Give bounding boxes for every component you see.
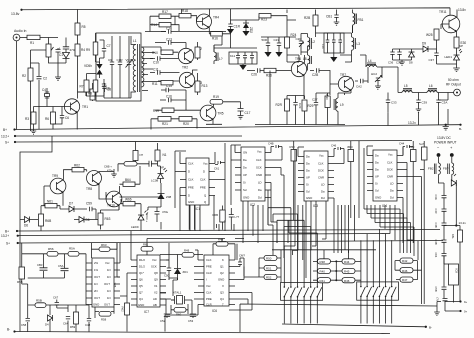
resistor R4 <box>75 44 80 56</box>
wire R33 riser <box>271 141 294 220</box>
wire left vertical rail <box>20 136 52 332</box>
capacitor C44 <box>403 145 413 156</box>
svg-text:TR11: TR11 <box>439 10 447 14</box>
resistor R62v <box>125 303 130 315</box>
wire TR6 emitter collector <box>303 55 306 99</box>
svg-text:R5A: R5A <box>69 247 75 251</box>
capacitor C3A <box>436 93 440 110</box>
svg-text:1N: 1N <box>107 275 111 279</box>
svg-text:CLK: CLK <box>387 161 393 165</box>
svg-text:UP: UP <box>375 175 379 179</box>
resistor R52 <box>264 274 277 279</box>
resistor R62 <box>72 168 84 172</box>
capacitor C66 <box>61 268 69 270</box>
node bus gnd junction <box>445 124 447 126</box>
resistor R8b <box>93 80 98 92</box>
diode LED8 <box>158 168 168 183</box>
connector minus terminal <box>437 153 441 157</box>
svg-text:D9: D9 <box>422 42 426 46</box>
svg-text:C2R: C2R <box>296 37 303 41</box>
wire L2 node <box>301 34 308 56</box>
counter IC3 <box>304 151 328 201</box>
svg-text:C3R: C3R <box>434 195 438 200</box>
node Bo <box>459 124 461 126</box>
svg-text:LED1: LED1 <box>445 55 453 59</box>
svg-text:W30: W30 <box>325 94 329 100</box>
wire bottom collect <box>282 324 426 327</box>
svg-text:UP: UP <box>243 173 247 177</box>
svg-text:GND: GND <box>306 196 312 200</box>
svg-text:Da: Da <box>390 189 394 193</box>
svg-text:R63: R63 <box>101 243 107 247</box>
svg-text:SCK: SCK <box>151 265 157 269</box>
SECTION_F <box>20 141 172 230</box>
svg-text:CB3: CB3 <box>37 263 43 267</box>
svg-text:FB2: FB2 <box>428 167 434 171</box>
SECTION_B <box>80 33 162 101</box>
svg-text:Si: Si <box>306 183 309 187</box>
svg-text:C39: C39 <box>422 101 428 105</box>
regulator IC8 <box>449 264 459 285</box>
svg-text:Si: Si <box>375 182 378 186</box>
wire B+ bus <box>15 125 461 130</box>
svg-text:PRE: PRE <box>188 186 194 190</box>
node S+ <box>14 141 16 143</box>
svg-text:C17: C17 <box>245 111 251 115</box>
svg-text:R48: R48 <box>218 238 224 242</box>
inductor L5 <box>402 89 412 93</box>
capacitor C8b <box>102 79 106 92</box>
diode LED9 <box>138 211 148 226</box>
resistor R37 <box>422 147 428 160</box>
wire nest IC2 staircase to SW1 <box>268 208 317 287</box>
svg-text:N?: N? <box>140 153 144 157</box>
svg-text:C15: C15 <box>166 84 172 88</box>
wire R63h net <box>92 243 118 258</box>
wire J1 to R1 <box>20 37 27 39</box>
capacitor C34 <box>338 33 342 53</box>
svg-text:X2: X2 <box>154 291 158 295</box>
svg-text:C8: C8 <box>106 87 110 91</box>
resistor R61 <box>45 204 57 208</box>
wire ZD8 C63 net <box>120 194 162 230</box>
wire IC8 in out <box>444 256 454 303</box>
crystal XTAL1 <box>177 296 183 305</box>
svg-text:R10: R10 <box>152 51 158 55</box>
svg-text:CLK: CLK <box>256 158 262 162</box>
resistor R31 <box>325 96 330 108</box>
zener ZD8 <box>158 194 165 200</box>
switch bank SW2 <box>357 282 399 300</box>
svg-text:CB1: CB1 <box>326 15 332 19</box>
resistor R46 <box>342 278 355 283</box>
capacitor C56 <box>443 298 448 302</box>
diode D6 <box>74 217 84 223</box>
svg-text:C26: C26 <box>251 73 257 77</box>
svg-text:13.2+: 13.2+ <box>1 135 9 139</box>
svg-text:R1/2: R1/2 <box>139 258 145 262</box>
wire TR8 to TR10 <box>99 185 120 211</box>
svg-text:D8: D8 <box>409 61 413 65</box>
wire K11 to TR6 <box>214 34 299 62</box>
svg-text:2%: 2% <box>94 261 99 265</box>
wire IC6 pins <box>198 239 235 305</box>
svg-text:9+: 9+ <box>464 300 468 304</box>
svg-text:CLK: CLK <box>200 178 206 182</box>
svg-text:13.2v: 13.2v <box>459 221 467 225</box>
resistor R64 <box>123 182 135 186</box>
svg-text:Da: Da <box>243 158 247 162</box>
resistor R65v <box>133 151 138 161</box>
svg-text:R6: R6 <box>45 117 49 121</box>
svg-text:228: 228 <box>113 283 117 288</box>
svg-text:GND: GND <box>218 278 224 282</box>
svg-text:GND: GND <box>188 200 194 204</box>
resistor R60 <box>39 214 44 226</box>
wire bottom mid rail <box>240 304 437 332</box>
diode LED1 <box>454 48 463 68</box>
svg-text:C36: C36 <box>388 61 394 65</box>
wire R10 to TR2 <box>161 43 186 53</box>
wire IC3 pins <box>295 147 334 205</box>
capacitor C41 <box>442 223 447 227</box>
svg-text:+: + <box>59 47 61 51</box>
counter IC4 <box>373 150 397 201</box>
svg-text:R5B: R5B <box>36 299 42 303</box>
svg-text:C14: C14 <box>166 27 172 31</box>
svg-text:Vcc: Vcc <box>152 258 157 262</box>
svg-text:R1: R1 <box>30 41 34 45</box>
capacitor trio box <box>324 33 344 53</box>
svg-text:C7: C7 <box>107 44 111 48</box>
inductor L8 <box>308 52 312 71</box>
svg-text:Dd: Dd <box>258 196 262 200</box>
svg-text:OUT: OUT <box>94 296 100 300</box>
svg-text:SCK: SCK <box>256 166 262 170</box>
resistor R26 <box>264 68 276 72</box>
ground above TR8 <box>87 169 117 177</box>
svg-text:LD: LD <box>390 182 394 186</box>
resistor R44 <box>342 259 355 264</box>
resistor R60b <box>174 308 186 313</box>
capacitor C54 <box>442 242 461 302</box>
wire B+ mid bus <box>17 230 440 232</box>
svg-text:GND: GND <box>375 196 381 200</box>
wire nest IC2 outputs to switches <box>271 168 288 259</box>
wire power entry <box>439 180 445 253</box>
wire R67 net <box>118 141 140 184</box>
svg-text:C53: C53 <box>188 319 194 323</box>
svg-text:Q1: Q1 <box>220 265 224 269</box>
svg-text:C61: C61 <box>214 167 220 171</box>
svg-text:W25: W25 <box>426 33 433 37</box>
svg-text:C5A: C5A <box>58 264 64 268</box>
wire IC1 pins <box>175 151 215 208</box>
svg-text:R40: R40 <box>320 270 326 274</box>
svg-text:C50: C50 <box>164 274 170 278</box>
diode D4 <box>48 315 53 321</box>
node B+ mid <box>16 230 18 232</box>
wire R63 to bus <box>101 206 120 230</box>
svg-text:470u: 470u <box>107 169 113 173</box>
resistor R24 <box>285 37 290 48</box>
capacitor C45 <box>271 145 282 153</box>
trimmer C25 <box>299 37 304 47</box>
wire diode node <box>34 206 98 231</box>
svg-text:Sd: Sd <box>243 188 247 192</box>
wire input chain <box>22 243 86 305</box>
ground under C1 node <box>55 63 61 80</box>
capacitor C59 <box>80 207 96 211</box>
svg-text:Q4: Q4 <box>139 297 143 301</box>
wire S+ mid bus <box>18 241 443 244</box>
svg-text:13.8v: 13.8v <box>458 8 466 12</box>
svg-text:C27: C27 <box>312 98 318 102</box>
svg-text:C64: C64 <box>63 322 69 326</box>
transistor TR1 <box>64 99 79 114</box>
wire R68 leads <box>189 205 222 230</box>
SECTION_E <box>303 8 466 131</box>
svg-text:CNR: CNR <box>318 176 324 180</box>
capacitor C47 <box>229 208 234 230</box>
svg-text:C64: C64 <box>434 253 438 258</box>
svg-text:R17: R17 <box>162 10 168 14</box>
svg-text:B-: B- <box>7 328 10 332</box>
svg-text:TR1: TR1 <box>82 105 88 109</box>
svg-text:IC8: IC8 <box>455 269 459 274</box>
transistor TR2 <box>178 48 193 63</box>
svg-text:C1: C1 <box>59 53 63 57</box>
svg-text:C2B: C2B <box>312 73 318 77</box>
wire R36 riser <box>412 141 414 218</box>
resistor R33 <box>291 150 297 162</box>
capacitor C29 <box>293 99 297 111</box>
svg-text:D6: D6 <box>24 224 28 228</box>
wire IC4 pins <box>364 146 403 205</box>
capacitor C16 <box>160 90 186 104</box>
zener ZD1 <box>174 269 181 275</box>
svg-text:TR9: TR9 <box>52 174 58 178</box>
svg-text:R49: R49 <box>184 249 190 253</box>
svg-text:R2: R2 <box>22 74 26 78</box>
svg-text:Sd: Sd <box>375 189 379 193</box>
wire nest IC3 drops <box>284 198 354 287</box>
svg-text:LC08: LC08 <box>151 179 159 183</box>
capacitor C32 <box>332 33 336 53</box>
wire stack net <box>272 250 376 280</box>
resistor R18 <box>179 14 191 18</box>
node bottom right <box>425 326 427 328</box>
wire S+ bus <box>15 141 412 143</box>
capacitor C52 <box>164 299 171 318</box>
capacitor C6 <box>53 107 64 125</box>
wire nest IC2 drops <box>243 183 277 256</box>
resistor R61b <box>141 247 153 252</box>
resistor R57 <box>68 252 79 257</box>
svg-text:1%: 1% <box>94 268 99 272</box>
svg-text:K3C: K3C <box>409 145 414 149</box>
op-amp IC5 <box>92 258 114 307</box>
capacitor C8 <box>102 83 106 92</box>
svg-text:R42: R42 <box>402 259 408 263</box>
wire L3 to TR7 <box>340 55 352 62</box>
svg-text:1N: 1N <box>94 282 98 286</box>
capacitor C46 <box>334 147 344 157</box>
svg-text:R52: R52 <box>266 276 272 280</box>
node S+ mid <box>17 242 19 244</box>
SECTION_G <box>175 141 427 230</box>
svg-text:C67: C67 <box>53 296 59 300</box>
wire R50 R52 net <box>244 250 281 282</box>
resistor R20 <box>179 117 192 122</box>
capacitor C18 <box>228 24 232 29</box>
wire right stack net <box>395 261 422 280</box>
svg-text:Audio In: Audio In <box>14 29 27 33</box>
svg-text:R13: R13 <box>202 84 208 88</box>
trimmer VC1 <box>126 36 133 98</box>
wire IC2 pins <box>231 145 271 205</box>
resistor R67 <box>124 162 137 166</box>
resistor R13 <box>195 81 200 92</box>
capacitor C42b <box>442 240 447 244</box>
connector J1 audio input jack <box>13 34 20 41</box>
mcu IC7 <box>137 255 160 307</box>
svg-text:CNR: CNR <box>387 175 393 179</box>
resistor R45b <box>342 268 355 273</box>
wire R19 to TR5 <box>155 104 200 110</box>
svg-text:R11: R11 <box>152 82 158 86</box>
svg-text:R7: R7 <box>80 85 84 89</box>
svg-text:LD: LD <box>258 181 262 185</box>
svg-text:L9: L9 <box>340 103 344 107</box>
svg-text:TR4: TR4 <box>213 16 219 20</box>
svg-text:R59: R59 <box>70 325 76 329</box>
resistor R25 <box>434 29 439 40</box>
wire TR7 base <box>323 71 338 96</box>
svg-text:XTAL1: XTAL1 <box>173 291 182 295</box>
svg-text:CM?: CM? <box>239 254 245 258</box>
diode D9 <box>418 46 437 52</box>
svg-text:Vcc: Vcc <box>105 261 110 265</box>
resistor R22 <box>259 14 271 18</box>
wire R49 ZD1 net <box>160 255 203 297</box>
svg-text:B+: B+ <box>5 230 9 234</box>
svg-text:2N: 2N <box>94 289 98 293</box>
svg-text:LED9: LED9 <box>131 225 139 229</box>
svg-text:Da: Da <box>306 169 310 173</box>
svg-text:GND: GND <box>243 196 249 200</box>
wire B out <box>445 302 461 312</box>
wire TR1 base network <box>34 88 71 131</box>
svg-text:B-: B- <box>429 326 432 330</box>
resistor R5 <box>77 10 79 45</box>
svg-text:VD5h: VD5h <box>84 64 92 68</box>
svg-text:S+: S+ <box>5 141 9 145</box>
svg-text:L1: L1 <box>133 39 137 43</box>
wire IC7 pins <box>131 239 166 306</box>
svg-text:D6: D6 <box>86 218 90 222</box>
svg-text:C6B +: C6B + <box>104 165 112 169</box>
resistor R28 <box>285 99 290 111</box>
svg-text:R19: R19 <box>213 95 219 99</box>
capacitor C63 <box>155 207 160 222</box>
resistor R58h2 <box>35 303 46 308</box>
svg-text:R50: R50 <box>266 257 272 261</box>
resistor R56 <box>47 252 58 257</box>
svg-text:C23: C23 <box>274 38 280 42</box>
svg-text:R44: R44 <box>344 260 350 264</box>
wire R8 node <box>86 92 93 101</box>
capacitor C27 <box>314 95 318 125</box>
capacitor C20 <box>266 37 270 52</box>
svg-text:R2B: R2B <box>304 16 310 20</box>
wire bottom B- bus <box>15 332 391 334</box>
wire regulator output <box>437 302 461 313</box>
counter IC2 <box>241 147 265 201</box>
node B+ <box>13 128 15 130</box>
wire C20 C22 R24 top node <box>261 10 296 38</box>
resistor R30 <box>454 37 459 48</box>
wire TR9 TR8 <box>44 170 87 206</box>
wire 13.2+ mid bus <box>18 234 390 236</box>
svg-text:DCK: DCK <box>387 168 393 172</box>
svg-text:C46: C46 <box>331 144 337 148</box>
wire nest left risers <box>117 231 244 296</box>
resistor R48 <box>216 242 228 247</box>
capacitor C26 <box>247 68 264 72</box>
svg-text:1N: 1N <box>107 296 111 300</box>
node 13.2+ <box>14 135 16 137</box>
svg-text:B-: B- <box>459 127 462 131</box>
svg-text:Vcc: Vcc <box>257 150 262 154</box>
svg-text:IC7: IC7 <box>144 310 149 314</box>
wire TR7 emitter network <box>316 91 351 125</box>
diode D10 <box>451 174 456 186</box>
svg-text:1N: 1N <box>107 268 111 272</box>
svg-text:AB: AB <box>153 303 157 307</box>
inductor L9 <box>334 95 338 125</box>
svg-text:CLK: CLK <box>188 162 194 166</box>
svg-text:R29: R29 <box>308 104 314 108</box>
ground at bus end <box>443 127 449 130</box>
svg-text:IC4: IC4 <box>382 204 387 208</box>
svg-text:OUT: OUT <box>104 282 110 286</box>
wire R24 bottom <box>287 48 299 62</box>
svg-text:C44: C44 <box>399 142 405 146</box>
resistor R50 <box>264 255 277 260</box>
node S+ output <box>459 300 461 302</box>
capacitor C38 <box>397 49 401 60</box>
transistor TR7 <box>338 76 353 91</box>
svg-text:Da: Da <box>375 154 379 158</box>
wire filter chain <box>28 305 89 332</box>
svg-text:Q3: Q3 <box>220 291 224 295</box>
ground bus joint under R3 <box>31 130 37 135</box>
svg-text:C63 +: C63 + <box>145 214 149 222</box>
svg-text:CLK: CLK <box>188 178 194 182</box>
capacitor C33 <box>386 93 390 113</box>
svg-text:R6B: R6B <box>213 213 219 217</box>
diode D5 <box>63 53 70 59</box>
svg-text:R19: R19 <box>153 109 159 113</box>
svg-text:Q6: Q6 <box>139 278 143 282</box>
svg-text:C48: C48 <box>85 323 91 327</box>
svg-text:Vcc: Vcc <box>206 284 211 288</box>
capacitor C13 <box>155 40 186 44</box>
capacitor C22 <box>277 37 281 52</box>
wire top 13.8v supply rail <box>21 8 450 15</box>
capacitor C24 <box>250 52 254 64</box>
